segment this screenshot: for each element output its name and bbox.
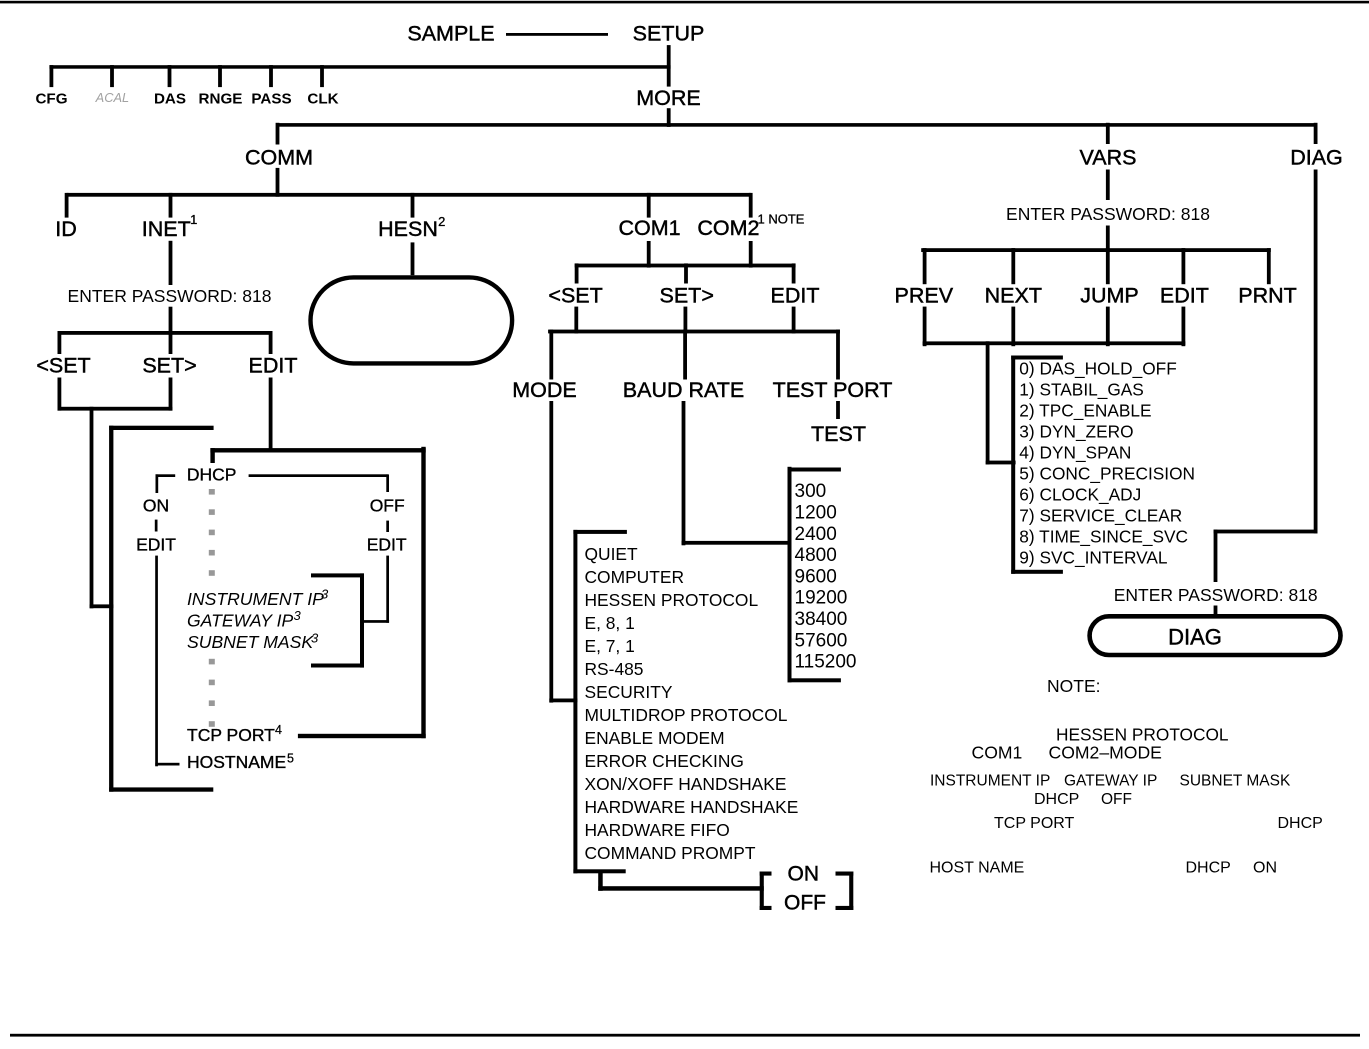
svg-text:HOSTNAME: HOSTNAME [187,752,286,772]
svg-text:PRNT: PRNT [1238,283,1297,307]
svg-text:HESSEN PROTOCOL: HESSEN PROTOCOL [585,590,759,610]
svg-text:PREV: PREV [895,283,954,307]
svg-text:5: 5 [287,752,294,766]
svg-text:1) STABIL_GAS: 1) STABIL_GAS [1019,379,1144,399]
svg-text:2: 2 [438,214,445,229]
svg-text:QUIET: QUIET [585,544,639,564]
svg-text:BAUD RATE: BAUD RATE [623,378,744,402]
svg-text:E, 7, 1: E, 7, 1 [585,636,635,656]
svg-text:1: 1 [190,212,197,227]
svg-text:INSTRUMENT IP: INSTRUMENT IP [930,773,1050,790]
svg-text:EDIT: EDIT [249,354,298,378]
svg-text:DHCP: DHCP [1186,859,1231,876]
svg-text:<SET: <SET [36,354,90,378]
svg-text:3: 3 [294,608,302,623]
svg-text:CFG: CFG [35,90,67,107]
svg-text:1 NOTE: 1 NOTE [758,212,805,227]
svg-text:3) DYN_ZERO: 3) DYN_ZERO [1019,421,1133,441]
svg-text:VARS: VARS [1080,146,1137,170]
svg-text:SUBNET MASK: SUBNET MASK [187,632,314,652]
svg-text:SECURITY: SECURITY [585,682,673,702]
svg-text:GATEWAY IP: GATEWAY IP [1064,773,1157,790]
svg-text:ENTER PASSWORD: 818: ENTER PASSWORD: 818 [1114,585,1318,605]
svg-text:SETUP: SETUP [633,22,705,46]
svg-text:HESN: HESN [378,217,438,241]
svg-text:COMMAND PROMPT: COMMAND PROMPT [585,843,756,863]
svg-text:57600: 57600 [795,630,848,651]
svg-text:TEST PORT: TEST PORT [773,378,893,402]
svg-text:1200: 1200 [795,503,837,524]
svg-text:OFF: OFF [370,496,405,516]
svg-text:19200: 19200 [795,588,848,609]
svg-text:9) SVC_INTERVAL: 9) SVC_INTERVAL [1019,547,1168,567]
svg-text:SUBNET MASK: SUBNET MASK [1180,773,1291,790]
svg-text:SET>: SET> [142,354,196,378]
svg-text:300: 300 [795,481,827,502]
svg-text:JUMP: JUMP [1080,283,1139,307]
svg-text:ENTER PASSWORD: 818: ENTER PASSWORD: 818 [1006,204,1210,224]
svg-text:DIAG: DIAG [1290,146,1343,170]
svg-text:COM2: COM2 [697,216,759,240]
svg-text:MULTIDROP PROTOCOL: MULTIDROP PROTOCOL [585,705,788,725]
svg-text:COM1: COM1 [972,743,1023,763]
svg-text:9600: 9600 [795,566,837,587]
svg-text:<SET: <SET [548,283,602,307]
svg-text:COM2–MODE: COM2–MODE [1049,743,1162,763]
svg-text:ACAL: ACAL [95,90,129,105]
svg-text:NEXT: NEXT [985,283,1042,307]
svg-text:TCP PORT: TCP PORT [187,725,275,745]
svg-text:COMPUTER: COMPUTER [585,567,685,587]
svg-text:DIAG: DIAG [1168,625,1222,650]
svg-text:EDIT: EDIT [1160,283,1209,307]
svg-text:EDIT: EDIT [367,535,407,555]
svg-text:115200: 115200 [795,652,857,673]
svg-text:MORE: MORE [636,86,701,110]
svg-text:COMM: COMM [245,146,313,170]
svg-text:DHCP: DHCP [187,465,237,485]
svg-text:6) CLOCK_ADJ: 6) CLOCK_ADJ [1019,484,1141,504]
svg-text:DHCP: DHCP [1034,791,1079,808]
svg-text:HOST NAME: HOST NAME [930,859,1025,876]
svg-text:SET>: SET> [660,283,714,307]
svg-text:INET: INET [142,217,191,241]
svg-text:GATEWAY IP: GATEWAY IP [187,610,294,630]
svg-text:RNGE: RNGE [199,90,243,107]
svg-text:ID: ID [55,217,77,241]
svg-text:ENTER PASSWORD: 818: ENTER PASSWORD: 818 [68,286,272,306]
svg-text:3: 3 [311,631,319,646]
svg-text:HARDWARE HANDSHAKE: HARDWARE HANDSHAKE [585,797,799,817]
svg-text:ERROR CHECKING: ERROR CHECKING [585,751,744,771]
svg-text:5) CONC_PRECISION: 5) CONC_PRECISION [1019,463,1195,483]
svg-text:INSTRUMENT IP: INSTRUMENT IP [187,589,324,609]
svg-text:ON: ON [1253,859,1277,876]
svg-text:DAS: DAS [154,90,186,107]
svg-text:RS-485: RS-485 [585,659,644,679]
svg-text:HARDWARE FIFO: HARDWARE FIFO [585,820,730,840]
svg-text:4800: 4800 [795,545,837,566]
svg-text:PASS: PASS [251,90,291,107]
svg-text:EDIT: EDIT [771,283,820,307]
svg-text:3: 3 [321,587,329,602]
svg-text:MODE: MODE [512,378,577,402]
svg-text:0) DAS_HOLD_OFF: 0) DAS_HOLD_OFF [1019,358,1177,378]
svg-text:OFF: OFF [1101,791,1132,808]
svg-text:DHCP: DHCP [1278,815,1323,832]
svg-text:38400: 38400 [795,609,848,630]
svg-text:OFF: OFF [784,892,826,915]
svg-text:7) SERVICE_CLEAR: 7) SERVICE_CLEAR [1019,505,1182,525]
svg-text:TEST: TEST [811,422,866,446]
svg-text:4: 4 [275,723,282,737]
svg-text:NOTE:: NOTE: [1047,676,1100,696]
svg-text:ON: ON [143,496,169,516]
svg-text:SAMPLE: SAMPLE [407,22,494,46]
svg-text:XON/XOFF HANDSHAKE: XON/XOFF HANDSHAKE [585,774,787,794]
svg-text:E, 8, 1: E, 8, 1 [585,613,635,633]
svg-text:2) TPC_ENABLE: 2) TPC_ENABLE [1019,400,1151,420]
svg-text:ON: ON [788,863,820,886]
svg-text:CLK: CLK [307,90,338,107]
svg-text:TCP PORT: TCP PORT [994,815,1075,832]
svg-text:EDIT: EDIT [136,535,176,555]
svg-text:ENABLE MODEM: ENABLE MODEM [585,728,725,748]
svg-text:2400: 2400 [795,524,837,545]
svg-text:8) TIME_SINCE_SVC: 8) TIME_SINCE_SVC [1019,526,1188,546]
svg-text:HESSEN PROTOCOL: HESSEN PROTOCOL [1056,725,1229,745]
svg-text:COM1: COM1 [618,216,680,240]
svg-text:4) DYN_SPAN: 4) DYN_SPAN [1019,442,1131,462]
